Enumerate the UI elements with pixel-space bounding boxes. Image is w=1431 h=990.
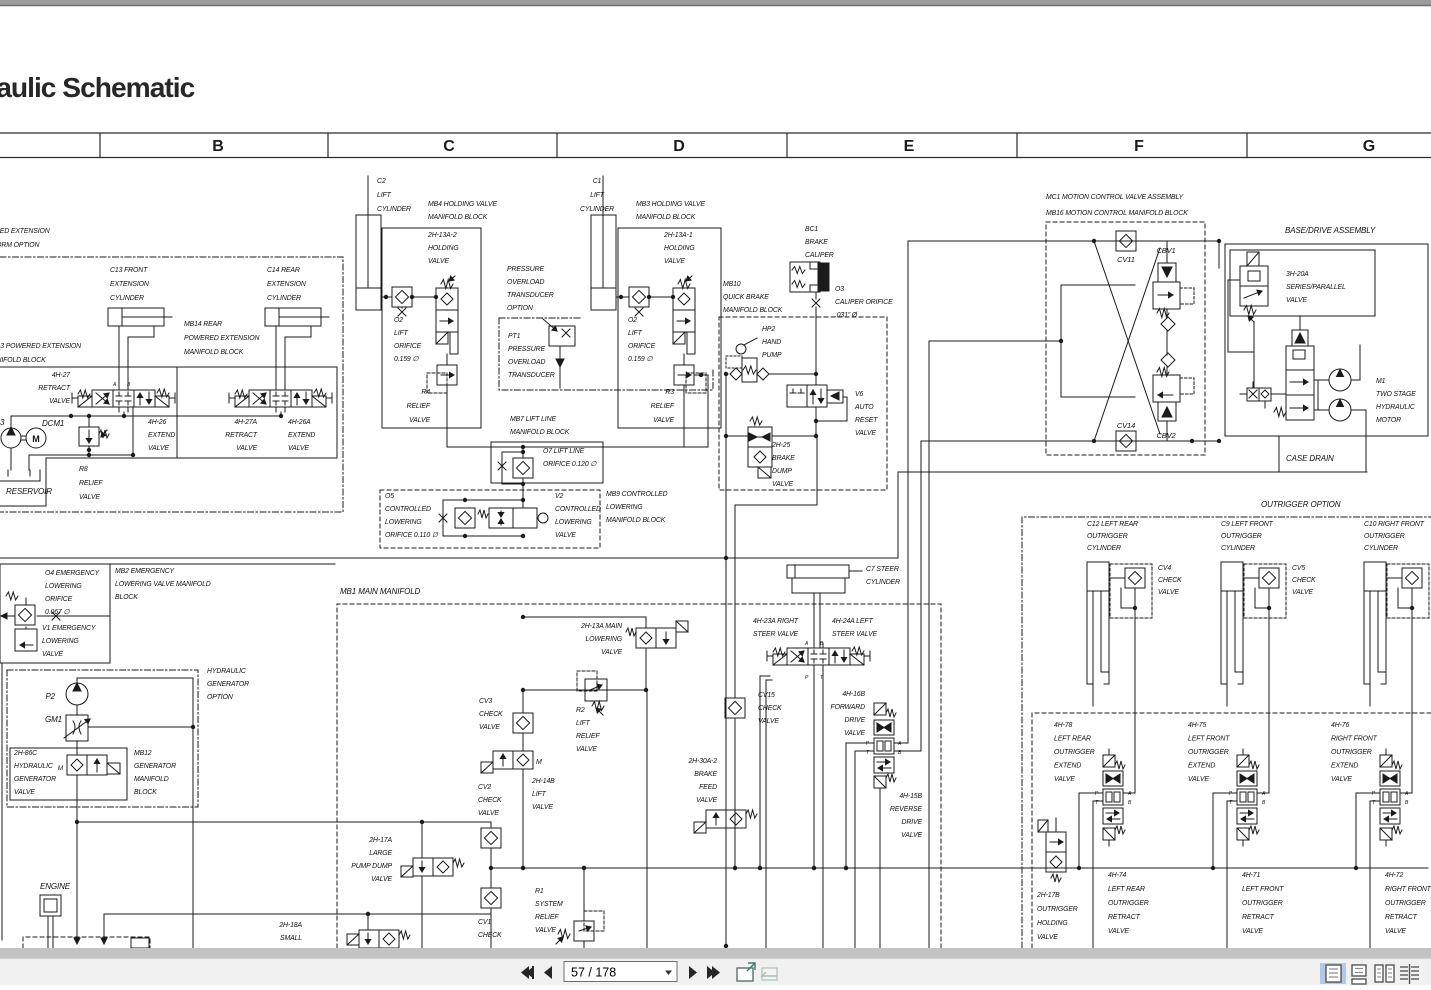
svg-text:F: F [1134, 138, 1144, 155]
check valve CV14 [1116, 431, 1136, 451]
valve 4H-16B forward drive [830, 691, 902, 788]
hydraulic motor M1 [1314, 345, 1416, 436]
MC1 inner rectangle [1061, 285, 1135, 397]
svg-text:D: D [673, 138, 685, 155]
svg-text:Hydraulic Schematic: Hydraulic Schematic [0, 71, 195, 103]
svg-text:MB1 MAIN MANIFOLD: MB1 MAIN MANIFOLD [340, 587, 421, 596]
wire tank line bottom [104, 913, 491, 915]
svg-text:CBV2: CBV2 [1156, 431, 1176, 440]
valve 2H-13A main lowering [521, 615, 688, 692]
svg-text:E: E [904, 138, 915, 155]
svg-text:M: M [58, 765, 64, 772]
check valve + orifice O2 (MB3) [616, 296, 629, 298]
check valve CV4 [1110, 564, 1152, 618]
wire C14 to valve [275, 385, 277, 390]
svg-text:C13 FRONTEXTENSIONCYLINDER: C13 FRONTEXTENSIONCYLINDER [110, 267, 149, 302]
page layout icons right [1320, 963, 1346, 984]
wires 4H-75 ports [1213, 792, 1237, 794]
valve 3H-20A symbol [1228, 252, 1268, 388]
valve 2H-17B outrigger holding [1036, 818, 1078, 941]
orifice O5 + valve V2 symbols [439, 498, 548, 538]
svg-text:M: M [32, 434, 39, 444]
relief valve R1 system [535, 866, 604, 948]
relief valve R3 [651, 354, 708, 447]
toolbar nav arrows [521, 966, 720, 979]
svg-text:DCM1: DCM1 [42, 419, 64, 428]
outrigger inner enclosure [1032, 713, 1431, 948]
powered extension platform option enclosure [0, 257, 343, 512]
counterbalance valve CBV2 [1153, 353, 1194, 441]
valve 4H-27A / 4H-26A directional [229, 385, 332, 412]
svg-text:CV11: CV11 [1117, 255, 1135, 264]
svg-text:CASE DRAIN: CASE DRAIN [1286, 454, 1334, 463]
valve 2H-30A-2 brake feed [687, 758, 757, 833]
valve V6 auto reset [787, 385, 878, 437]
wire MB2 box top line [0, 563, 335, 565]
valve 4H-27 / 4H-26 directional [72, 385, 175, 412]
cylinder C12 symbol [1087, 562, 1109, 706]
relief valve R2 lift [521, 671, 646, 753]
valve V1 emergency lowering symbol [1, 592, 110, 658]
svg-text:P2: P2 [45, 692, 55, 701]
toolbar [0, 958, 1431, 985]
brake caliper BC1 [790, 226, 834, 292]
check valve CV11 [1116, 231, 1136, 251]
svg-text:RESERVOIR: RESERVOIR [6, 487, 52, 496]
wire case drain to reservoir line [0, 557, 898, 559]
valve 2H-25 brake dump [748, 417, 795, 488]
wire C13 to valve [118, 385, 120, 390]
cylinder C9 symbol [1221, 562, 1243, 706]
cylinder C7 steer [787, 565, 900, 648]
wires 4H-78 ports [1079, 792, 1103, 794]
valve 4H-75 outrigger extend [1229, 749, 1266, 846]
crossover lines MC1 [1094, 241, 1160, 434]
valve 4H-78 outrigger extend [1095, 749, 1132, 846]
wire return to reservoir [29, 454, 133, 456]
wire hand pump to caliper line [769, 373, 816, 375]
check valve CV5 [1244, 564, 1286, 618]
manifold MB13/MB14 block outline [0, 367, 337, 506]
wire pump to valve supply [11, 415, 281, 417]
transducer PT1 symbol [543, 319, 575, 388]
pump assembly enclosure (cut) [23, 937, 150, 948]
engine symbol [40, 882, 71, 948]
series/parallel valve 3H-20A box [1230, 250, 1375, 316]
check valve outrigger right [1387, 564, 1429, 618]
wire left border down [1, 663, 3, 940]
wire MB10 internals [815, 374, 817, 385]
hand pump HP2 [724, 326, 782, 382]
valve 2H-86C hydraulic generator [58, 755, 120, 944]
cylinder C10 symbol [1364, 562, 1386, 706]
case drain wire [1278, 436, 1280, 472]
cylinder C1 lift [580, 176, 616, 310]
main pressure wire [491, 867, 1428, 869]
valve 2H-17A large pump dump [351, 822, 464, 948]
pump/motor DCM1 [0, 418, 64, 448]
svg-text:MC1 MOTION CONTROL VALVE ASSEM: MC1 MOTION CONTROL VALVE ASSEMBLY [1046, 194, 1185, 201]
wires 4H-16B ports [846, 742, 874, 744]
cylinder C14 symbol [265, 308, 329, 390]
manifold MC1/MB16 enclosure [1046, 222, 1205, 455]
valve 4H-76 outrigger extend [1372, 749, 1409, 846]
relief valve R4 [407, 354, 457, 447]
svg-text:MB16 MOTION CONTROL MANIFOLD B: MB16 MOTION CONTROL MANIFOLD BLOCK [1046, 210, 1188, 217]
svg-text:CV14: CV14 [1117, 421, 1135, 430]
holding valve 2H-13A-2 symbol [436, 276, 458, 354]
wire MC1 top [908, 240, 1219, 242]
shuttle valve symbol [1240, 382, 1286, 408]
wire quick brake outputs [725, 374, 727, 946]
manifold MB12 generator block [10, 748, 127, 800]
check valve + orifice O2 (MB4) [381, 296, 392, 298]
valve 2H-18A small pump dump [278, 914, 410, 948]
orifice O7 check symbol [447, 445, 708, 508]
svg-text:C: C [443, 138, 455, 155]
valve 2H-14B lift [481, 751, 555, 870]
cylinder C13 symbol [108, 308, 172, 390]
holding valve 2H-13A-1 symbol [673, 276, 695, 354]
two-speed valve symbol [1274, 316, 1314, 420]
svg-text:OUTRIGGER OPTION: OUTRIGGER OPTION [1261, 500, 1341, 509]
wire MC1 bottom [921, 440, 1219, 442]
page number box [564, 962, 677, 982]
counterbalance valve CBV1 [1153, 241, 1194, 355]
svg-text:57 / 178: 57 / 178 [571, 966, 616, 980]
svg-text:BASE/DRIVE ASSEMBLY: BASE/DRIVE ASSEMBLY [1285, 226, 1376, 235]
relief valve R8 [79, 416, 109, 501]
svg-text:CBV1: CBV1 [1156, 246, 1175, 255]
snapshot icons [737, 963, 777, 981]
hydraulic generator option enclosure [7, 670, 198, 807]
svg-text:G: G [1363, 138, 1375, 155]
reservoir symbol [0, 470, 40, 481]
svg-text:3: 3 [0, 418, 5, 427]
vertical mains in MB1 [646, 690, 648, 948]
svg-text:GM1: GM1 [45, 715, 62, 724]
valve 4H-23A / 4H-24A steer directional [767, 643, 870, 670]
pump P2 [45, 678, 193, 948]
generator motor GM1 [45, 715, 195, 755]
svg-text:B: B [212, 138, 224, 155]
top browser bar [0, 0, 1431, 5]
svg-text:ENGINE: ENGINE [40, 882, 71, 891]
cylinder C2 lift [356, 176, 411, 310]
svg-text:M: M [536, 759, 542, 766]
bottom gray strip [0, 948, 1431, 958]
manifold MB9 controlled lowering block [380, 490, 600, 548]
wires 4H-76 ports [1356, 792, 1380, 794]
grid header band [0, 133, 1431, 158]
wire steer valve ports [813, 670, 815, 868]
manifold MB1 enclosure [337, 604, 941, 948]
